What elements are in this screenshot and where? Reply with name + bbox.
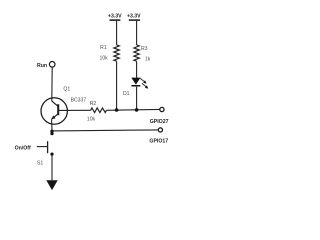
wire +3.3V bar to R3 xyxy=(136,21,138,45)
wire R1 to node A xyxy=(116,61,118,110)
wire node C to GPIO17 xyxy=(52,130,158,131)
terminal Run circle xyxy=(49,62,55,68)
svg-text:S1: S1 xyxy=(37,161,43,167)
junction node A (R1 / GPIO27 wire) xyxy=(115,108,119,112)
switch S1 actuator shaft xyxy=(37,146,48,148)
switch S1 bottom contact dot xyxy=(50,153,53,156)
wire +3.3V bar to R1 xyxy=(116,21,118,45)
terminal GPIO17 circle xyxy=(158,128,162,132)
switch S1 top contact dot xyxy=(50,132,53,135)
svg-text:R3: R3 xyxy=(141,46,148,52)
svg-text:GPIO17: GPIO17 xyxy=(149,139,168,145)
switch S1 actuator bar xyxy=(47,141,49,153)
transistor Q1 emitter diagonal xyxy=(52,114,58,119)
svg-text:10k: 10k xyxy=(99,56,108,62)
svg-text:BC337: BC337 xyxy=(71,97,87,103)
resistor R2 xyxy=(91,108,107,113)
svg-text:+3.3V: +3.3V xyxy=(108,14,122,20)
svg-text:Q1: Q1 xyxy=(63,86,70,92)
LED D1 cathode bar xyxy=(131,85,140,87)
svg-text:10k: 10k xyxy=(87,117,96,123)
svg-text:R2: R2 xyxy=(90,101,97,107)
power +3.3V rail 1 bar xyxy=(110,19,121,21)
LED D1 triangle xyxy=(131,78,140,85)
wire switch to ground xyxy=(51,156,53,181)
transistor Q1 collector diagonal xyxy=(52,101,58,106)
wire R2 to GPIO27 xyxy=(107,108,160,111)
svg-text:D1: D1 xyxy=(123,91,130,97)
svg-text:R1: R1 xyxy=(100,45,107,51)
svg-text:Run: Run xyxy=(37,63,47,69)
transistor Q1 circle xyxy=(41,98,67,124)
wire Run to Q1 collector xyxy=(51,67,53,101)
svg-text:GPIO27: GPIO27 xyxy=(150,119,169,125)
svg-text:1k: 1k xyxy=(145,56,151,62)
power +3.3V rail 2 bar xyxy=(129,19,140,21)
transistor Q1 emitter arrow xyxy=(52,116,56,120)
svg-text:On/Off: On/Off xyxy=(15,146,31,152)
wire Q1 base to R2 xyxy=(58,109,90,111)
junction node B (LED / GPIO27 wire) xyxy=(135,108,139,112)
ground xyxy=(46,180,57,190)
wire Q1 emitter down to node C xyxy=(51,119,53,131)
junction node C (emitter / switch / GPIO17 wire) xyxy=(50,130,53,133)
wire LED to node B xyxy=(136,87,138,110)
transistor Q1 base bar xyxy=(57,104,59,115)
LED D1 light arrow 1 xyxy=(140,78,146,83)
wire R3 to LED D1 xyxy=(136,61,138,78)
svg-text:+3.3V: +3.3V xyxy=(127,14,141,20)
resistor R1 xyxy=(114,45,119,61)
terminal GPIO27 circle xyxy=(160,107,164,111)
resistor R3 xyxy=(134,45,139,61)
LED D1 light arrow 2 xyxy=(142,83,148,88)
